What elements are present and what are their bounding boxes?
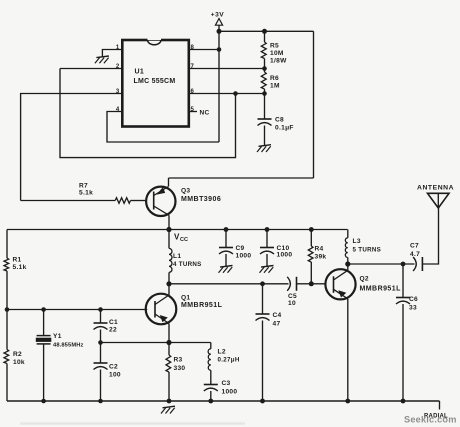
svg-text:5.1k: 5.1k xyxy=(13,264,27,271)
wire C7 to antenna xyxy=(422,207,438,264)
capacitor C8 xyxy=(264,94,266,120)
wire +3V to rail xyxy=(218,25,220,31)
resistor R2 xyxy=(4,350,9,364)
node C1/C2 junction xyxy=(98,340,103,345)
wire pin7 to R5/R6 xyxy=(189,68,265,70)
svg-text:33: 33 xyxy=(409,305,417,312)
wire Q2 emitter to ground rail xyxy=(347,299,349,401)
svg-text:C4: C4 xyxy=(273,312,282,319)
svg-text:C3: C3 xyxy=(222,380,231,387)
svg-text:L2: L2 xyxy=(218,349,226,356)
svg-text:R2: R2 xyxy=(13,351,22,358)
svg-text:Y1: Y1 xyxy=(53,333,62,340)
svg-text:C7: C7 xyxy=(410,243,419,250)
node C6 bottom xyxy=(401,399,406,404)
IC notch xyxy=(148,40,162,45)
svg-text:L3: L3 xyxy=(353,238,361,245)
svg-text:C5: C5 xyxy=(288,293,297,300)
inductor L1 4 turns xyxy=(168,230,170,249)
wire +3V down to pin8/pin4 loop xyxy=(218,31,220,142)
svg-text:0.27μH: 0.27μH xyxy=(218,357,240,364)
node +3V rail junction xyxy=(217,29,222,34)
svg-text:1000: 1000 xyxy=(277,251,293,258)
svg-text:47: 47 xyxy=(273,321,281,328)
ground C10 xyxy=(260,266,274,273)
crystal Y1 48.855MHz xyxy=(41,307,46,312)
node Q3 collector / Vcc xyxy=(166,227,171,232)
node C2 bottom xyxy=(98,399,103,404)
node Q1 emitter junction xyxy=(166,340,171,345)
wire top rail xyxy=(219,30,314,32)
svg-text:100: 100 xyxy=(109,371,121,378)
svg-text:R6: R6 xyxy=(270,75,279,82)
resistor R4 xyxy=(309,227,314,232)
capacitor C2 xyxy=(100,343,102,364)
wire C5 to Q2 base xyxy=(311,283,325,285)
node Q2 collector / L3 xyxy=(345,261,350,266)
transistor Q2 MMBR951L xyxy=(325,269,355,299)
svg-text:R3: R3 xyxy=(174,357,183,364)
svg-text:R4: R4 xyxy=(315,246,324,253)
svg-text:Q1: Q1 xyxy=(181,295,190,302)
ground main rail xyxy=(161,406,175,413)
svg-text:Seekic.com: Seekic.com xyxy=(404,415,457,425)
svg-text:+3V: +3V xyxy=(211,12,225,19)
svg-text:1000: 1000 xyxy=(236,252,252,259)
svg-text:10M: 10M xyxy=(270,50,284,57)
transistor Q1 MMBR951L xyxy=(146,294,177,325)
svg-text:C9: C9 xyxy=(236,245,245,252)
capacitor C4 xyxy=(260,281,265,286)
svg-text:MMBR951L: MMBR951L xyxy=(181,302,223,309)
wire pin2 xyxy=(60,68,122,70)
node pin6/pin2 feedback junction xyxy=(233,91,238,96)
node L1/Q1 collector xyxy=(166,281,171,286)
antenna symbol xyxy=(428,193,450,208)
resistor R1 xyxy=(6,230,8,259)
wire pin3 down xyxy=(21,94,123,201)
wire mid junction line xyxy=(101,342,211,344)
wire box right side xyxy=(313,31,315,178)
wire pin5 stub xyxy=(189,111,197,113)
node C3 bottom xyxy=(208,399,213,404)
capacitor C1 xyxy=(98,307,103,312)
wire pin3 run to R7 xyxy=(21,200,116,202)
capacitor C5 xyxy=(287,277,296,291)
svg-text:ANTENNA: ANTENNA xyxy=(417,185,454,192)
wire ground rail xyxy=(7,400,440,402)
svg-text:4.7: 4.7 xyxy=(410,251,420,258)
wire C8 to ground xyxy=(264,126,266,146)
inductor L3 5 turns xyxy=(347,230,349,238)
wire Q1 emitter xyxy=(168,324,170,343)
svg-text:MMBR951L: MMBR951L xyxy=(360,286,402,293)
svg-text:L1: L1 xyxy=(173,253,181,260)
wire feedback pin6 to pin2 xyxy=(60,69,236,158)
resistor R6 xyxy=(261,72,266,89)
op IC U1 LMC555CM body xyxy=(122,40,189,127)
svg-text:NC: NC xyxy=(200,110,210,117)
svg-text:5 TURNS: 5 TURNS xyxy=(353,247,382,254)
node pin8 junction xyxy=(217,47,222,52)
svg-text:10: 10 xyxy=(288,300,296,307)
svg-text:48.855MHz: 48.855MHz xyxy=(53,343,84,349)
svg-text:10k: 10k xyxy=(13,359,25,366)
svg-text:5.1k: 5.1k xyxy=(79,189,93,196)
transistor Q3 MMBT3906 xyxy=(146,187,175,217)
wire R7 to Q3 base xyxy=(131,200,146,202)
capacitor C10 xyxy=(265,227,270,232)
svg-text:C6: C6 xyxy=(409,296,418,303)
wire Vcc rail xyxy=(7,229,348,231)
svg-text:1M: 1M xyxy=(270,83,280,90)
svg-text:4 TURNS: 4 TURNS xyxy=(173,261,202,268)
svg-text:U1: U1 xyxy=(135,69,145,76)
ground C9 xyxy=(219,266,233,273)
wire radial tick xyxy=(439,401,441,410)
node C4 bottom xyxy=(260,399,265,404)
node Y1 bottom xyxy=(41,399,46,404)
node Q2 emitter bottom xyxy=(345,399,350,404)
node R5/R6 junction xyxy=(262,66,267,71)
wire pin8 xyxy=(189,49,219,51)
svg-text:39k: 39k xyxy=(315,254,327,261)
svg-text:LMC 555CM: LMC 555CM xyxy=(134,78,176,85)
wire box bottom to Q3 emitter xyxy=(169,177,314,179)
node R1/R2/base junction xyxy=(5,307,10,312)
wire bus Q1 collector to C5 xyxy=(169,283,289,285)
wire pin6 xyxy=(189,93,265,95)
svg-text:Q3: Q3 xyxy=(181,188,190,195)
svg-text:0.1μF: 0.1μF xyxy=(275,125,294,132)
wire Q1 base line xyxy=(7,309,147,311)
svg-text:1000: 1000 xyxy=(222,389,238,396)
wire pin1 to ground xyxy=(102,50,122,57)
wire Q2 collector to C7 xyxy=(348,263,415,265)
node R3 bottom / ground rail xyxy=(167,399,172,404)
wire Q3 collector to Vcc rail xyxy=(168,215,170,229)
node R4 bottom / Q2 base xyxy=(309,281,314,286)
node R6 bottom xyxy=(262,91,267,96)
svg-text:C1: C1 xyxy=(109,319,118,326)
capacitor C6 xyxy=(401,262,406,267)
node R5 top xyxy=(262,29,267,34)
svg-text:22: 22 xyxy=(109,327,117,334)
wire Q3 emitter up xyxy=(168,178,170,186)
resistor R3 xyxy=(168,343,170,356)
svg-text:CC: CC xyxy=(180,237,188,243)
ground pin1 xyxy=(95,56,109,63)
inductor L2 0.27uH xyxy=(210,343,212,349)
svg-text:C8: C8 xyxy=(275,117,284,124)
wire Q1 collector xyxy=(168,284,170,295)
svg-text:R1: R1 xyxy=(13,257,22,264)
svg-text:1/8W: 1/8W xyxy=(270,58,287,65)
ground C8 xyxy=(257,145,271,152)
wire pin4 to +3V loop xyxy=(107,112,219,143)
svg-text:C2: C2 xyxy=(109,363,118,370)
resistor R5 xyxy=(264,31,266,42)
svg-text:330: 330 xyxy=(174,365,186,372)
svg-text:Q2: Q2 xyxy=(360,276,369,283)
capacitor C3 xyxy=(204,385,218,392)
wire Q2 collector xyxy=(347,264,349,270)
capacitor C9 xyxy=(224,227,229,232)
svg-text:R5: R5 xyxy=(270,43,279,50)
capacitor C7 xyxy=(413,257,422,271)
svg-text:MMBT3906: MMBT3906 xyxy=(181,196,221,203)
